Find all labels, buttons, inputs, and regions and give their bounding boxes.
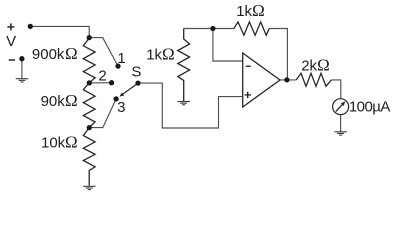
svg-text:Ω: Ω xyxy=(65,133,78,152)
svg-text:3: 3 xyxy=(117,99,125,116)
svg-text:V: V xyxy=(6,33,16,50)
svg-text:1k: 1k xyxy=(146,46,162,63)
svg-text:1: 1 xyxy=(117,50,125,67)
svg-text:100µA: 100µA xyxy=(349,98,390,115)
svg-text:2k: 2k xyxy=(301,58,317,75)
svg-text:Ω: Ω xyxy=(65,91,78,110)
svg-text:Ω: Ω xyxy=(317,56,330,75)
svg-text:2: 2 xyxy=(98,67,106,84)
svg-text:10k: 10k xyxy=(41,135,66,152)
svg-text:900k: 900k xyxy=(32,46,65,63)
svg-text:Ω: Ω xyxy=(252,1,265,20)
svg-text:1k: 1k xyxy=(236,3,252,20)
svg-text:S: S xyxy=(131,64,141,81)
svg-text:Ω: Ω xyxy=(162,44,175,63)
svg-text:Ω: Ω xyxy=(65,44,78,63)
svg-text:90k: 90k xyxy=(41,93,66,110)
